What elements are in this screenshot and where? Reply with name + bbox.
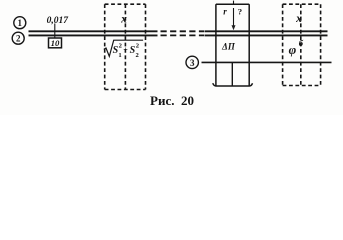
svg-text:x: x (120, 14, 127, 26)
wire: lower rail solid right segment (205, 34, 328, 36)
svg-text:2: 2 (136, 52, 140, 59)
wire: upper rail solid right segment (205, 30, 328, 32)
block B3: dashed box with x over phi-b (283, 4, 321, 85)
node 1 (circle label) (14, 17, 26, 29)
svg-text:+: + (123, 45, 128, 54)
svg-text:ΔП: ΔП (221, 42, 236, 52)
wire: lower single line from node 3 to right edge (202, 61, 332, 63)
svg-text:x: x (295, 13, 302, 25)
arrow from r? down to rails (232, 8, 236, 30)
block B1: dashed box with x over sqrt(S1^2+S2^2) (105, 4, 146, 89)
wire: lower rail solid left segment (29, 34, 158, 36)
wire: upper rail solid left segment (29, 30, 158, 32)
svg-text:0,017: 0,017 (47, 16, 70, 26)
svg-text:2: 2 (136, 42, 140, 49)
svg-text:б: б (299, 38, 304, 48)
block B2: solid box with r? arrow and delta-P (213, 4, 253, 86)
svg-text:Рис. 20: Рис. 20 (150, 93, 194, 108)
node 3 (circle label) (186, 56, 198, 68)
svg-text:1: 1 (18, 18, 23, 28)
svg-text:r: r (223, 6, 227, 16)
wire: lower rail dashed middle segment (161, 34, 205, 36)
value label sqrt(S1^2+S2^2) (104, 40, 143, 59)
component box 10 (49, 38, 62, 48)
svg-text:1: 1 (118, 52, 121, 59)
bottom edge with up-curled ends (213, 83, 253, 86)
svg-text:10: 10 (51, 38, 60, 48)
value label phi-b (289, 38, 304, 57)
svg-text:2: 2 (119, 42, 123, 49)
svg-text:3: 3 (190, 58, 195, 68)
wire: divider inside block B2 below lower line (231, 62, 233, 85)
tick above block B2 top edge (233, 1, 235, 5)
wire: tick from label 0,017 through rails to box 10 (54, 24, 56, 39)
svg-text:φ: φ (289, 42, 297, 57)
svg-text:2: 2 (16, 34, 21, 44)
node 2 (circle label) (12, 32, 24, 44)
svg-text:?: ? (238, 6, 242, 16)
wire: upper rail dashed middle segment (161, 30, 205, 32)
